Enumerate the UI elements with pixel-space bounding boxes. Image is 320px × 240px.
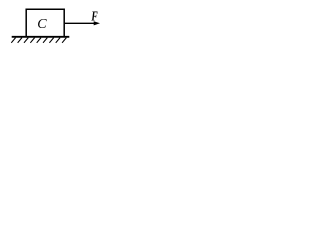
- force arrow F: shaft: [65, 22, 95, 24]
- ground line: [12, 36, 70, 38]
- svg-text:F: F: [91, 8, 98, 24]
- force arrow F: head: [94, 21, 100, 25]
- ground hatching: [11, 38, 66, 43]
- svg-text:C: C: [37, 17, 47, 32]
- block C box (three sides, bottom is ground line): [26, 9, 64, 37]
